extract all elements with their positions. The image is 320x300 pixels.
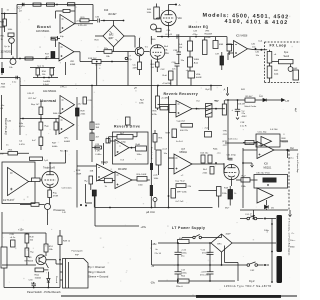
svg-text:LT Power Supply: LT Power Supply [172,226,205,230]
svg-text:Cuμ ?2u2: Cuμ ?2u2 [175,180,185,182]
pot VR5 bass [188,67,202,86]
resistor R28 [76,108,87,116]
node dot [48,77,50,79]
svg-text:Cμu 1u: Cμu 1u [37,66,45,68]
resistor fx1 [267,50,272,63]
wire bridge left [95,35,103,37]
svg-text:1kB: 1kB [90,171,94,173]
wire top left [0,78,20,86]
svg-text:1250mA Type TRΩ-T Ma-180TR: 1250mA Type TRΩ-T Ma-180TR [224,285,272,288]
wire lower branch [30,68,58,78]
wire TR1 [27,233,49,268]
svg-text:470u 20u: 470u 20u [202,253,212,255]
node dot [131,147,133,149]
svg-text:UM-3E?: UM-3E? [108,14,117,16]
switch SW1 [182,234,222,239]
svg-text:+Cu3: +Cu3 [162,149,168,151]
node dot [168,36,170,38]
resistor R29 [90,122,100,130]
wire bridge right [124,36,135,48]
op-amp U10 [257,188,273,203]
label A arrow down [224,87,229,95]
capacitor C9 [232,100,279,131]
svg-text:470u 20u: 470u 20u [200,274,210,276]
wire left branch [4,14,6,33]
svg-text:10k 4R: 10k 4R [238,104,245,106]
resistor R48 [25,234,34,243]
bottom page line [61,295,297,297]
label C40 [251,44,256,49]
label VR3 treble [205,30,213,39]
svg-text:Ru&: Ru& [163,75,168,77]
svg-text:C44, 40p: C44, 40p [258,132,268,134]
label R25 [76,170,82,175]
op-amp U11 [8,168,29,196]
svg-text:27u 16: 27u 16 [155,253,162,255]
svg-text:T?R: T?R [223,131,228,133]
svg-text:C3R: C3R [173,50,178,52]
wire R41 [0,152,29,154]
svg-text:0.47u: 0.47u [19,126,25,128]
svg-text:10u +: 10u + [290,240,296,242]
wire rail +15 [158,242,211,244]
svg-text:C11 470p: C11 470p [227,155,237,157]
svg-text:400P: 400P [226,234,232,236]
wire drive feedback [104,132,138,165]
svg-text:FX Loop: FX Loop [270,43,287,47]
svg-text:R&&&R: R&&&R [205,34,213,36]
svg-text:C-4Ra: C-4Ra [95,154,102,156]
wire bridge bottom [96,47,135,52]
svg-text:+C1R: +C1R [201,271,207,273]
capacitor Cin drive [106,139,115,144]
svg-text:WR&: WR& [194,59,200,61]
wire U6 to U7 [114,172,116,174]
svg-text:Reverb Leads: Reverb Leads [150,147,152,159]
resistor R40 presence [31,203,39,207]
capacitor C36 [95,17,124,23]
node dot [91,85,93,87]
svg-text:Ring = Reverb: Ring = Reverb [88,270,106,274]
label R59 [52,143,58,149]
resistor R23 [126,117,131,125]
misc smudges [1,88,297,215]
op-amp U6 [97,164,114,181]
svg-text:0.22u 63: 0.22u 63 [78,25,87,27]
resistor R35b [199,187,228,208]
resistor R20 [78,17,89,27]
bridge BR1 [211,234,232,252]
resistor R27b [117,133,133,144]
node dot [19,58,21,60]
svg-text:-15v: -15v [150,281,156,284]
svg-text:HT: HT [286,99,290,103]
label C43 470p [193,30,199,36]
resistor R4B [163,71,174,86]
wire left edge [1,95,3,150]
pot presence [45,204,51,226]
svg-text:C2R: C2R [10,234,15,236]
resistor R31 [153,134,163,143]
fuse FL1 [240,214,276,220]
wire bottom out [240,210,288,216]
resistor R19 [88,58,101,64]
resistor R21 [104,48,112,58]
svg-text:V1a: V1a [165,53,170,55]
wire U7 out [132,179,150,181]
svg-text:+15v: +15v [151,243,157,246]
wire x77 vertical [76,97,78,140]
op-amp U2 [59,43,74,62]
resistor R70 [176,279,189,288]
node dot [111,61,113,63]
label TR1 [25,257,34,262]
svg-text:0.1u R: 0.1u R [240,126,247,128]
resistor R66 [176,184,192,189]
jack fx send [288,64,293,72]
wire HT [225,99,282,101]
svg-text:1-R: 1-R [62,212,66,214]
wire V2 anode [50,163,66,171]
label C40 [255,41,263,58]
svg-text:TLΩ71: TLΩ71 [101,162,109,164]
resistor R69 [178,238,190,244]
wire rail stub [210,86,212,91]
node dot [253,215,255,217]
label CPu [64,138,70,144]
resistor R52 [25,248,34,257]
capacitor C44 [12,76,18,84]
wire U6 in [77,165,97,167]
node dot [157,85,159,87]
resistor fx2 [267,63,272,83]
op-amp IC3 [115,140,129,157]
winding HT [277,215,283,252]
resistor R14 [33,3,41,6]
wire U9 in [243,149,257,151]
node dot [48,287,50,289]
svg-text:1000u: 1000u [181,253,188,255]
svg-text:1Ωk M52Ω1: 1Ωk M52Ω1 [43,90,57,93]
node dot [49,162,51,164]
svg-text:+15v: +15v [18,229,24,232]
svg-text:R&&: R&& [213,149,218,151]
svg-text:KD 2&&: KD 2&& [60,151,68,153]
capacitor C37 [215,52,224,70]
svg-text:100n: 100n [137,154,143,156]
resistor R12 [25,57,33,60]
svg-text:J17?: J17? [223,145,229,147]
capacitor C54 [200,153,209,163]
wire V3 grid [224,163,226,172]
reverb transducer T1 [206,101,219,130]
bar element [150,163,153,170]
svg-text:&&&: &&& [274,74,279,76]
svg-text:405R: 405R [70,64,76,66]
transistor Tr1 [135,47,144,56]
svg-text:Out: Out [196,100,200,103]
node Out [286,147,294,160]
svg-text:&&0R: &&0R [196,77,202,79]
svg-text:C45 0.1u: C45 0.1u [229,139,239,141]
label R11 [1,36,6,42]
node dot [22,118,24,120]
resistor R18b [224,186,237,206]
wire U2 output [74,52,128,86]
op-amp U9 [257,142,274,159]
wire normal col [20,86,59,151]
svg-text:R2R: R2R [76,170,81,172]
wire cathode EQ feed [157,36,227,38]
svg-text:1n&R&: 1n&R& [43,81,50,83]
capacitor C18 [51,36,64,40]
wire IC5 in [226,45,234,61]
wire V1b anode [168,5,170,11]
resistor R33b [203,167,215,175]
svg-text:Ch 1a: Ch 1a [95,65,102,67]
svg-text:+15v: +15v [141,226,147,229]
resistor R48d [45,122,59,130]
op-amp IC5 [234,41,248,58]
resistor R51 [44,244,54,252]
diode D6 [265,200,275,210]
resistor R15 [47,3,55,6]
wire x60 vertical [59,230,61,288]
label R58 [1,84,7,89]
reverb drive box [113,132,149,164]
svg-text:&5R: &5R [219,44,224,46]
node dot [43,77,45,79]
wire node A [169,4,177,6]
svg-text:470R: 470R [53,196,59,198]
node dot [227,99,229,101]
svg-text:Reverb Recovery: Reverb Recovery [164,92,199,96]
svg-text:MF? 220k: MF? 220k [177,192,188,194]
op-amp U8 [174,154,192,174]
svg-text:F5F: F5F [75,254,80,256]
svg-text:RμB: RμB [136,144,141,146]
svg-text:R&T: R&T [52,143,57,145]
svg-text:M52Ω1: M52Ω1 [264,166,272,169]
label IC9 [95,151,102,156]
capacitor C28 [10,234,17,247]
svg-text:Ruμ 1k?: Ruμ 1k? [31,104,40,106]
svg-text:+C12: +C12 [181,250,187,252]
resistor R48c [213,37,224,49]
cap bar right [150,185,153,196]
svg-text:0.47&: 0.47& [19,144,25,146]
label R44 33k [164,46,169,51]
svg-text:Send: Send [284,55,290,58]
op-amp U5 [176,101,192,118]
svg-text:400V: 400V [242,116,248,118]
resistor R41 [8,150,18,155]
svg-text:MC1458: MC1458 [118,169,127,171]
wire bridge feed [89,21,124,26]
resistor R17 [45,52,55,59]
svg-text:R5 4k7: R5 4k7 [246,96,254,98]
node dots transformer [271,223,273,283]
node dot [96,61,98,63]
svg-text:R2b 100R: R2b 100R [137,174,147,176]
svg-text:C48, 47p, V?1Ω: C48, 47p, V?1Ω [256,173,270,175]
wire transformer vertical [271,219,273,283]
wire bridge bottom [221,252,223,265]
svg-text:PRw &: PRw & [176,286,183,288]
capacitor C11 [227,155,237,160]
wire IC5 out [248,49,268,50]
svg-text:4&R: 4&R [133,68,138,70]
capacitor C13 [175,265,188,281]
node dot fx [260,49,262,51]
svg-text:Metal Oxide: Metal Oxide [245,105,257,108]
label 1nR [43,81,50,86]
wire input left [0,5,17,59]
op-amp U7 [115,172,132,189]
wire R35 down [158,105,177,113]
node dot [210,85,212,87]
svg-text:150R: 150R [76,173,82,175]
svg-text:R&& 10k: R&& 10k [53,113,63,115]
resistor R46 [31,104,43,115]
wire feedback U1 [56,5,76,24]
wire rail 0v [152,264,269,266]
valve V2 [42,171,58,190]
svg-text:680n: 680n [290,247,296,249]
svg-text:&&&k: &&&k [52,146,58,148]
svg-text:Triode 1a-B: Triode 1a-B [43,167,55,170]
wire U8 in [169,158,175,169]
svg-text:C45 47: C45 47 [27,93,35,95]
resistor R57a [37,66,54,76]
resistor fx4 [293,68,299,80]
resistor R35 [152,86,160,116]
resistor R27 [137,174,148,186]
label R61fx [274,70,279,76]
diode bridge D [103,25,124,46]
label C 047 [19,140,25,146]
resistor R26 [85,176,93,184]
capacitor C28 [95,144,102,149]
svg-text:470p: 470p [193,34,199,36]
pot VR2 [8,33,14,55]
resistor R50 [35,268,49,279]
label VR1 [70,61,76,66]
node dots rails [177,242,222,282]
node dot [215,108,217,110]
resistor R13 [3,19,6,26]
wire Tr1 out [144,51,150,53]
node dot [215,162,217,164]
wire V3 HT drop [227,100,229,160]
resistor R44 [147,7,160,19]
svg-text:A: A [224,88,226,92]
node dot [237,99,239,101]
wire left vertical [151,240,153,265]
capacitor C48 [196,100,201,111]
resistor R67 [236,176,258,188]
svg-text:+&.2u: +&.2u [10,237,17,239]
pot VR1 [10,57,16,65]
capacitor C14 [201,243,214,265]
svg-text:1Ω6 M52Ω1: 1Ω6 M52Ω1 [36,30,50,33]
svg-text:Footswμtch: Footswμtch [72,250,84,253]
diode D41 [259,96,266,102]
node dot [56,4,58,6]
pot VR4 mid [181,51,200,67]
svg-text:&&&R: &&&R [64,141,70,143]
svg-text:LT Secondary - see Power Amp d: LT Secondary - see Power Amp diagram [287,218,290,255]
node dot [151,207,153,209]
node dot [22,4,24,6]
resistor R42 [29,178,42,182]
svg-text:400 22k: 400 22k [180,130,189,132]
wire supply rail mid [20,85,222,87]
svg-text:IC8: IC8 [264,163,268,166]
resistor R10 [48,190,59,198]
svg-text:C&: C& [19,140,23,142]
svg-text:0.1u R: 0.1u R [166,34,173,36]
svg-text:L7R+u: L7R+u [60,87,67,89]
svg-text:J111: J111 [223,134,228,136]
module box TL072 [2,162,35,204]
node dot [195,36,197,38]
resistor fx3 [272,60,293,64]
node C top [253,216,255,220]
resistor R37 [166,129,184,143]
svg-text:MμT: MμT [294,108,296,113]
op-amp U3 [60,96,75,115]
node dot [242,162,244,164]
resistor R33 [208,155,212,163]
wire jack left [1,212,3,247]
wire U8 out [192,164,224,172]
svg-text:Normal: Normal [40,98,57,103]
label W3 [154,174,160,180]
node dot [45,58,47,60]
capacitor C30 [29,280,37,288]
svg-text:CF7 4n7: CF7 4n7 [28,98,37,100]
dashed boundary [288,150,290,211]
svg-text:Cμ 1μ: Cμ 1μ [4,46,11,48]
wire U9 out [274,150,298,158]
wire bottom bus [4,268,60,288]
wire drive lower [92,147,100,149]
node dot [109,207,111,209]
svg-text:BA2: BA2 [109,34,114,37]
resistor R43 [156,28,161,32]
svg-text:R1R 2k2: R1R 2k2 [88,58,97,60]
svg-text:M3R: M3R [166,133,171,135]
svg-text:Master EQ: Master EQ [189,25,209,29]
svg-text:R&&: R&& [35,274,40,276]
label 0n 27u [155,249,162,255]
svg-text:Panel Switch - PUSH Reverb: Panel Switch - PUSH Reverb [27,290,61,294]
wire R44 [157,4,162,20]
resistor R49 [58,236,71,245]
node dot [161,36,163,38]
svg-text:100n: 100n [138,185,144,187]
resistor R22 [133,62,142,75]
resistor R31b [129,144,147,156]
svg-text:+C: +C [181,175,184,177]
wire x157 stub [154,130,156,150]
node dot [59,259,61,261]
ic10 block [256,134,280,147]
wire Tr1 collector [139,38,141,47]
LED D8 [47,272,50,288]
svg-text:Fμu: Fμu [284,51,289,54]
